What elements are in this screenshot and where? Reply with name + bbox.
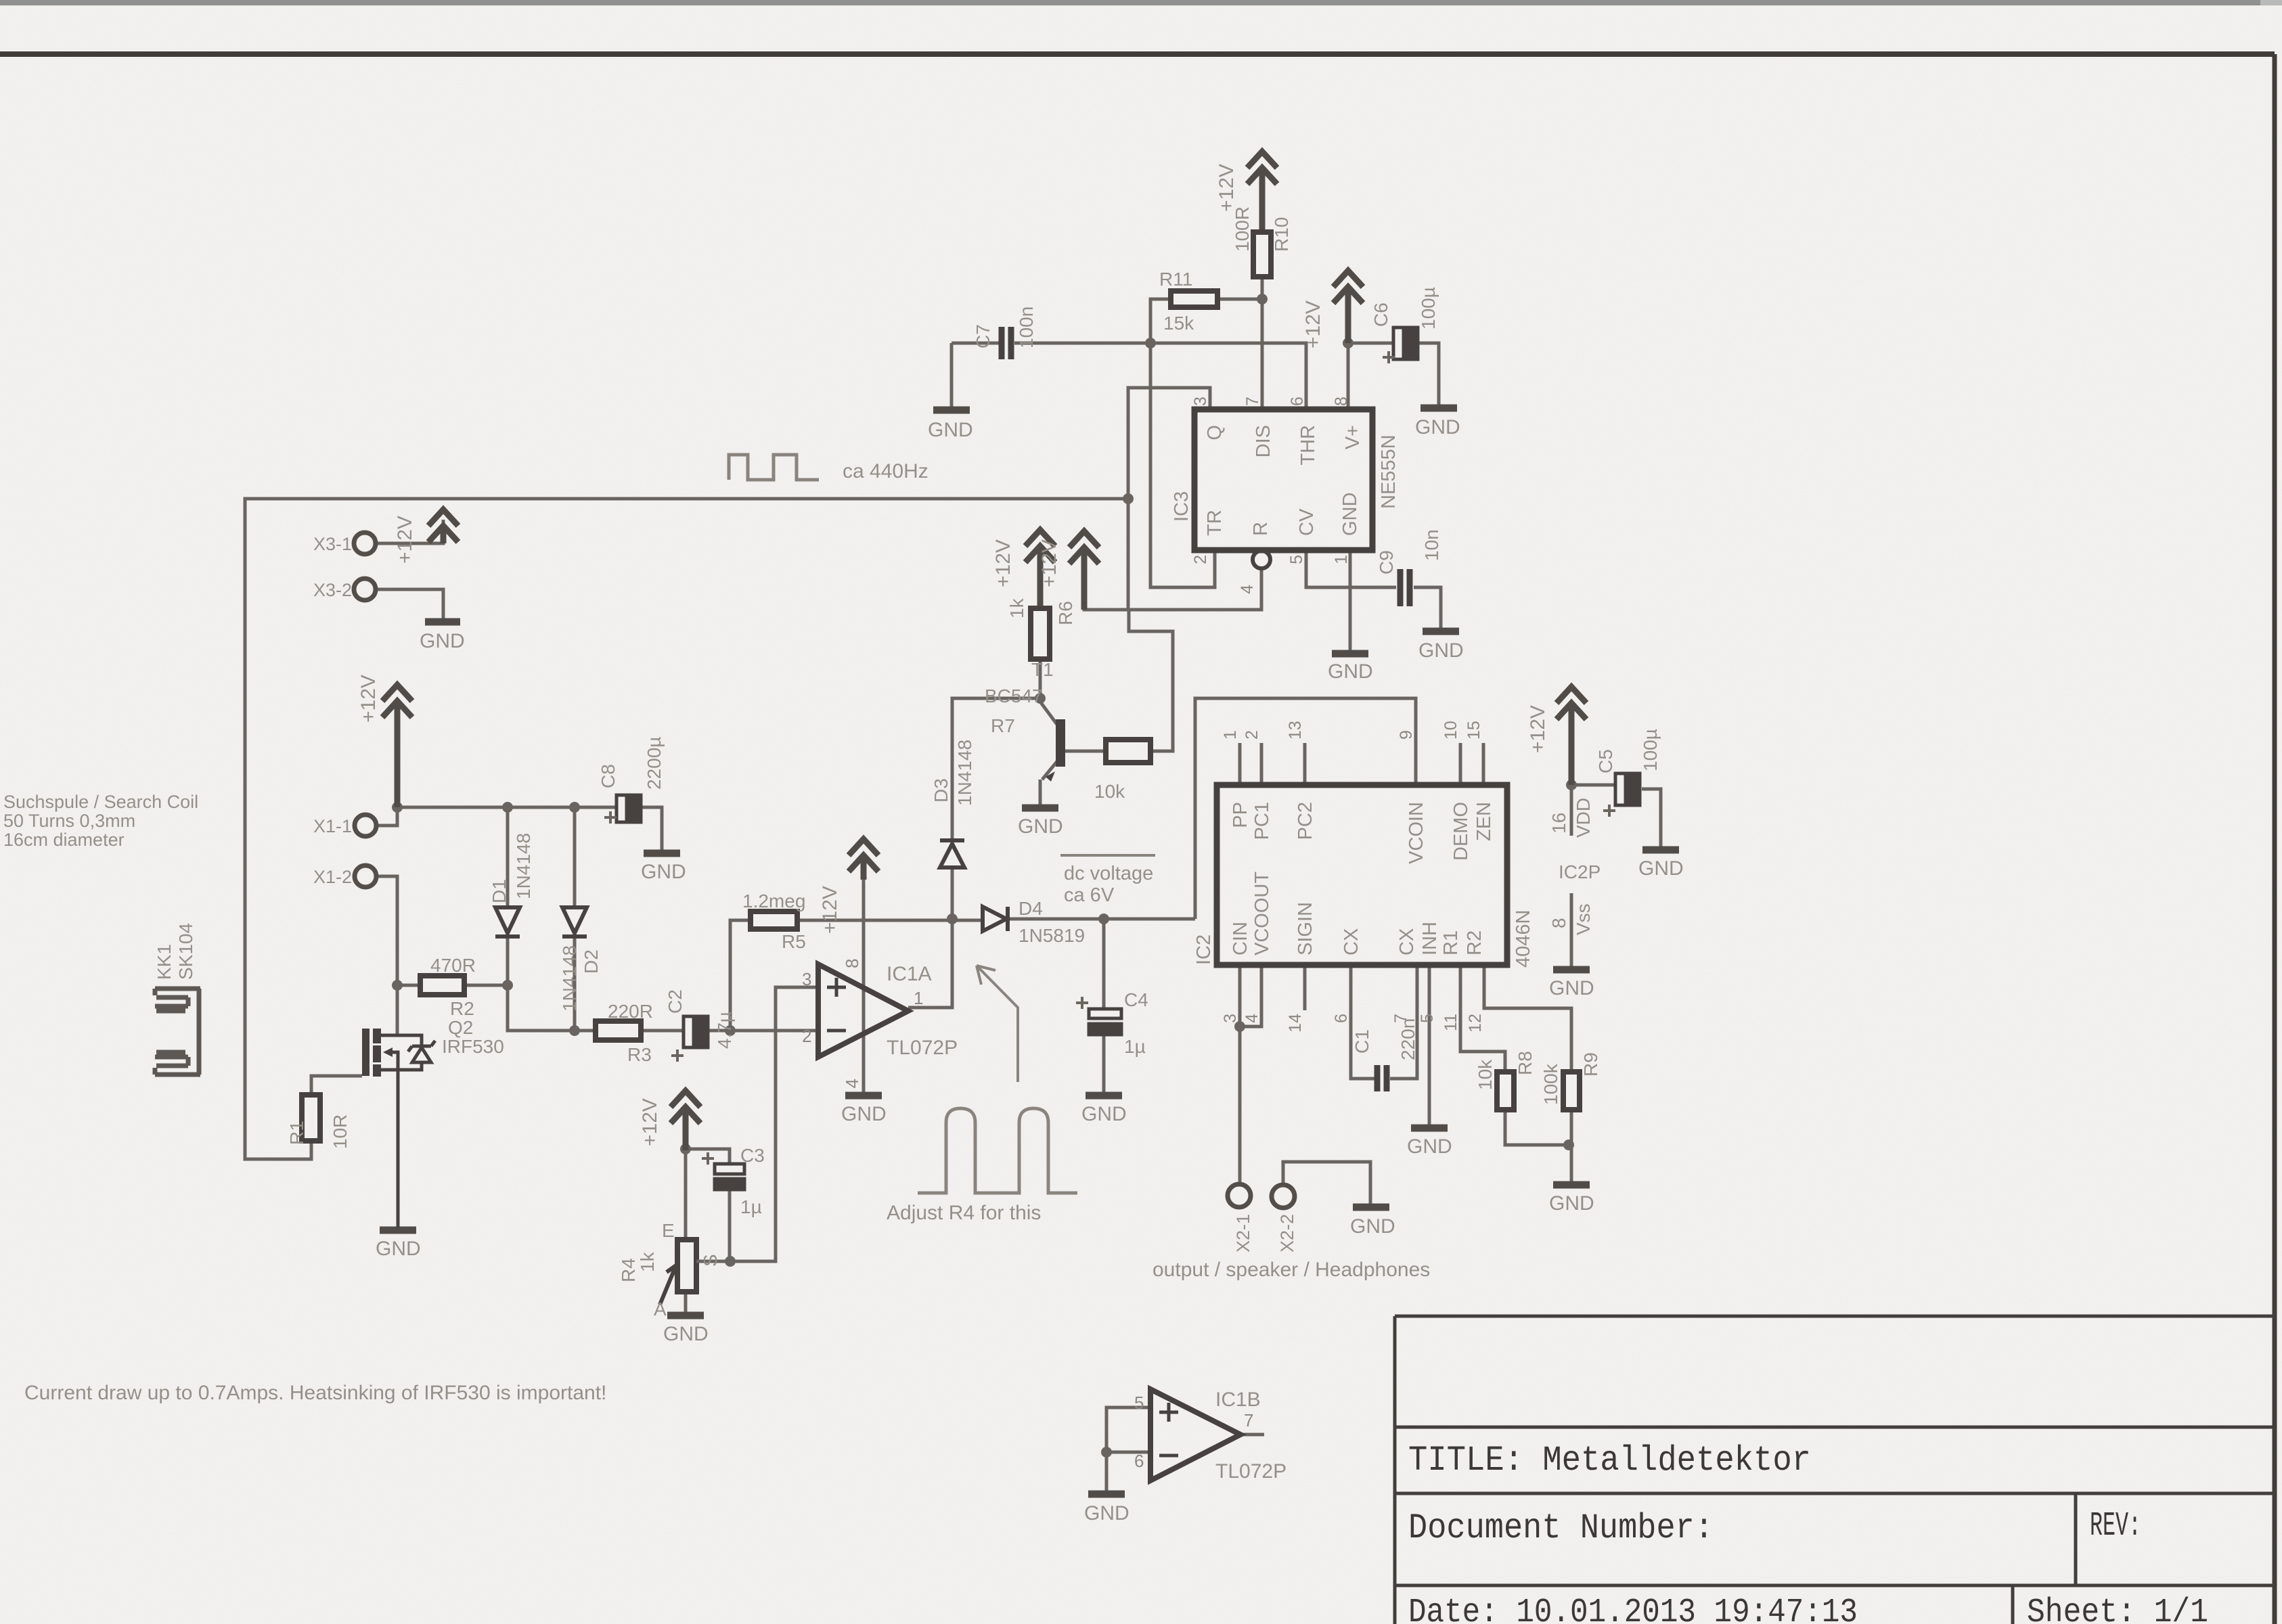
svg-text:GND: GND (1018, 815, 1063, 838)
svg-text:4: 4 (842, 1079, 862, 1088)
svg-text:VDD: VDD (1573, 798, 1594, 838)
svg-text:+12V: +12V (357, 675, 380, 723)
svg-text:D1: D1 (489, 879, 510, 903)
svg-text:CX: CX (1396, 928, 1418, 955)
svg-text:R11: R11 (1159, 269, 1192, 290)
svg-text:Suchspule / Search Coil: Suchspule / Search Coil (3, 792, 198, 812)
svg-text:D4: D4 (1019, 898, 1043, 919)
svg-text:KK1: KK1 (154, 944, 175, 980)
svg-text:IC3: IC3 (1171, 491, 1192, 522)
svg-text:GND: GND (641, 861, 686, 883)
svg-text:R1: R1 (1440, 930, 1462, 955)
svg-text:X2-1: X2-1 (1233, 1214, 1253, 1253)
svg-text:10R: 10R (330, 1114, 351, 1149)
svg-text:100n: 100n (1016, 307, 1037, 348)
svg-text:GND: GND (1418, 639, 1464, 662)
svg-text:+12V: +12V (1527, 705, 1549, 753)
svg-text:R7: R7 (991, 715, 1015, 736)
svg-text:6: 6 (1288, 397, 1307, 406)
svg-text:C9: C9 (1376, 550, 1397, 574)
svg-text:1N4148: 1N4148 (559, 945, 580, 1012)
svg-text:9: 9 (1397, 730, 1416, 740)
svg-text:16cm diameter: 16cm diameter (3, 830, 125, 850)
svg-text:+12V: +12V (992, 539, 1014, 587)
svg-text:100R: 100R (1232, 206, 1253, 252)
svg-text:Date: 10.01.2013 19:47:13: Date: 10.01.2013 19:47:13 (1408, 1594, 1858, 1624)
svg-text:5: 5 (1418, 1014, 1437, 1023)
svg-text:ca 440Hz: ca 440Hz (843, 460, 929, 482)
svg-text:CX: CX (1341, 928, 1362, 955)
svg-text:Sheet: 1/1: Sheet: 1/1 (2027, 1594, 2208, 1624)
svg-text:10n: 10n (1421, 529, 1442, 561)
svg-text:100k: 100k (1540, 1063, 1561, 1105)
svg-text:3: 3 (802, 969, 811, 989)
svg-text:+12V: +12V (1215, 164, 1238, 212)
svg-text:1N5819: 1N5819 (1019, 925, 1085, 946)
svg-text:8: 8 (1332, 397, 1351, 406)
svg-text:GND: GND (841, 1103, 887, 1125)
svg-text:2200µ: 2200µ (644, 737, 665, 790)
svg-text:GND: GND (663, 1323, 709, 1345)
svg-text:C2: C2 (665, 989, 686, 1014)
svg-text:R9: R9 (1580, 1052, 1601, 1077)
svg-text:1: 1 (1221, 730, 1240, 740)
svg-text:GND: GND (1084, 1502, 1129, 1525)
svg-text:11: 11 (1441, 1014, 1460, 1031)
svg-text:6: 6 (1134, 1451, 1144, 1471)
svg-text:T1: T1 (1031, 659, 1054, 680)
svg-text:INH: INH (1419, 922, 1441, 955)
svg-text:X3-2: X3-2 (313, 580, 352, 600)
svg-text:C6: C6 (1370, 302, 1391, 327)
svg-text:1N4148: 1N4148 (513, 833, 534, 899)
svg-text:GND: GND (1549, 1192, 1594, 1215)
svg-text:X1-2: X1-2 (313, 867, 352, 887)
svg-text:3: 3 (1191, 397, 1210, 406)
svg-text:7: 7 (1243, 397, 1262, 406)
svg-text:PP: PP (1230, 802, 1251, 828)
svg-text:GND: GND (1339, 493, 1361, 536)
svg-text:PC2: PC2 (1295, 802, 1316, 840)
svg-text:2: 2 (1191, 555, 1210, 564)
svg-text:VCOIN: VCOIN (1406, 802, 1427, 864)
svg-text:GND: GND (1549, 977, 1594, 999)
svg-text:2: 2 (1243, 730, 1261, 740)
svg-text:GND: GND (1407, 1135, 1452, 1158)
svg-text:GND: GND (1638, 857, 1684, 880)
svg-text:1µ: 1µ (1124, 1036, 1146, 1057)
svg-text:7: 7 (1391, 1014, 1410, 1023)
svg-text:E: E (662, 1220, 675, 1241)
svg-text:13: 13 (1286, 721, 1305, 740)
svg-text:7: 7 (1244, 1410, 1253, 1430)
svg-text:R10: R10 (1271, 217, 1292, 252)
svg-text:IC1A: IC1A (887, 963, 932, 985)
svg-text:1N4148: 1N4148 (954, 740, 975, 806)
svg-text:IC2: IC2 (1193, 934, 1215, 965)
svg-text:IC1B: IC1B (1215, 1389, 1261, 1411)
svg-text:1: 1 (1332, 555, 1351, 564)
svg-text:IRF530: IRF530 (442, 1036, 504, 1057)
svg-text:220n: 220n (1397, 1018, 1418, 1060)
svg-text:IC2P: IC2P (1559, 861, 1601, 882)
svg-text:V+: V+ (1342, 425, 1364, 449)
svg-text:R4: R4 (618, 1258, 639, 1282)
svg-text:1: 1 (914, 988, 923, 1008)
svg-text:output / speaker / Headphones: output / speaker / Headphones (1153, 1259, 1430, 1281)
svg-text:CIN: CIN (1230, 922, 1251, 955)
svg-text:R8: R8 (1515, 1051, 1536, 1075)
svg-text:2: 2 (802, 1026, 811, 1046)
svg-text:BC547: BC547 (985, 685, 1043, 706)
svg-text:C3: C3 (740, 1145, 765, 1166)
svg-text:TL072P: TL072P (887, 1037, 958, 1059)
svg-text:D3: D3 (931, 778, 952, 803)
svg-text:5: 5 (1287, 555, 1306, 564)
svg-text:R5: R5 (782, 931, 806, 952)
svg-text:1.2meg: 1.2meg (742, 890, 805, 911)
svg-text:Q: Q (1204, 425, 1226, 441)
svg-text:Document Number:: Document Number: (1408, 1508, 1714, 1548)
svg-text:SIGIN: SIGIN (1295, 902, 1316, 955)
svg-text:GND: GND (420, 630, 465, 652)
svg-text:dc voltage: dc voltage (1064, 863, 1153, 884)
svg-text:THR: THR (1297, 425, 1319, 466)
svg-text:10k: 10k (1094, 781, 1125, 802)
svg-text:GND: GND (1415, 416, 1460, 438)
svg-text:C7: C7 (972, 324, 993, 348)
svg-text:4046N: 4046N (1513, 910, 1534, 968)
svg-text:PC1: PC1 (1251, 802, 1273, 840)
svg-text:DIS: DIS (1253, 425, 1274, 457)
svg-text:GND: GND (1081, 1103, 1127, 1125)
svg-text:R: R (1250, 522, 1272, 536)
svg-text:R1: R1 (286, 1121, 307, 1145)
svg-text:C4: C4 (1124, 989, 1148, 1010)
svg-text:16: 16 (1548, 813, 1569, 834)
svg-text:TR: TR (1204, 510, 1226, 536)
svg-text:GND: GND (928, 419, 973, 441)
svg-text:Q2: Q2 (448, 1017, 473, 1038)
svg-text:100µ: 100µ (1418, 287, 1439, 330)
svg-text:3: 3 (1221, 1014, 1240, 1023)
svg-text:100µ: 100µ (1640, 729, 1661, 771)
svg-text:ca 6V: ca 6V (1064, 884, 1115, 906)
svg-text:+12V: +12V (819, 886, 841, 934)
svg-text:220R: 220R (608, 1001, 653, 1022)
svg-text:14: 14 (1286, 1014, 1305, 1033)
svg-text:NE555N: NE555N (1378, 434, 1400, 509)
svg-text:+12V: +12V (1302, 300, 1324, 348)
svg-text:ZEN: ZEN (1473, 802, 1495, 841)
svg-text:REV:: REV: (2090, 1507, 2141, 1546)
svg-text:4: 4 (1243, 1014, 1261, 1023)
svg-text:15: 15 (1464, 721, 1483, 740)
svg-text:6: 6 (1332, 1014, 1351, 1023)
svg-text:470R: 470R (430, 955, 476, 976)
svg-text:5: 5 (1134, 1393, 1144, 1413)
svg-text:+12V: +12V (394, 516, 416, 564)
svg-text:S: S (700, 1254, 721, 1267)
svg-text:X1-1: X1-1 (313, 816, 352, 836)
svg-text:C1: C1 (1351, 1029, 1372, 1054)
svg-text:4.7µ: 4.7µ (714, 1012, 735, 1049)
svg-text:X3-1: X3-1 (313, 534, 352, 554)
svg-text:R6: R6 (1055, 601, 1076, 625)
svg-text:R2: R2 (1464, 930, 1485, 955)
svg-text:C5: C5 (1595, 749, 1616, 773)
svg-text:SK104: SK104 (175, 923, 196, 980)
svg-text:8: 8 (842, 959, 862, 968)
svg-text:1k: 1k (1006, 597, 1027, 618)
svg-text:Current draw up to 0.7Amps. He: Current draw up to 0.7Amps. Heatsinking … (24, 1382, 606, 1404)
svg-text:D2: D2 (581, 949, 602, 974)
svg-text:CV: CV (1296, 508, 1318, 536)
svg-text:GND: GND (1328, 660, 1373, 683)
svg-text:R3: R3 (627, 1044, 652, 1065)
svg-text:15k: 15k (1163, 313, 1194, 334)
svg-text:C8: C8 (598, 764, 619, 788)
svg-text:GND: GND (1350, 1215, 1395, 1238)
svg-text:Vss: Vss (1573, 903, 1594, 935)
svg-text:GND: GND (376, 1238, 421, 1260)
svg-text:50 Turns 0,3mm: 50 Turns 0,3mm (3, 811, 135, 831)
svg-text:Adjust R4 for this: Adjust R4 for this (887, 1202, 1041, 1224)
svg-text:TL072P: TL072P (1215, 1460, 1287, 1483)
svg-text:VCOOUT: VCOOUT (1251, 872, 1273, 955)
svg-text:R2: R2 (450, 998, 474, 1019)
svg-text:1µ: 1µ (740, 1196, 762, 1217)
svg-text:8: 8 (1548, 918, 1569, 928)
svg-text:1k: 1k (637, 1251, 658, 1272)
svg-text:TITLE: Metalldetektor: TITLE: Metalldetektor (1408, 1441, 1811, 1481)
svg-text:A: A (654, 1299, 667, 1319)
svg-text:X2-2: X2-2 (1277, 1214, 1297, 1253)
svg-text:10k: 10k (1475, 1059, 1496, 1090)
svg-text:4: 4 (1238, 585, 1257, 594)
svg-text:10: 10 (1441, 721, 1460, 740)
svg-text:12: 12 (1466, 1014, 1485, 1033)
svg-text:+12V: +12V (1038, 539, 1060, 587)
svg-text:DEMO: DEMO (1450, 802, 1472, 861)
svg-text:+12V: +12V (639, 1098, 661, 1146)
